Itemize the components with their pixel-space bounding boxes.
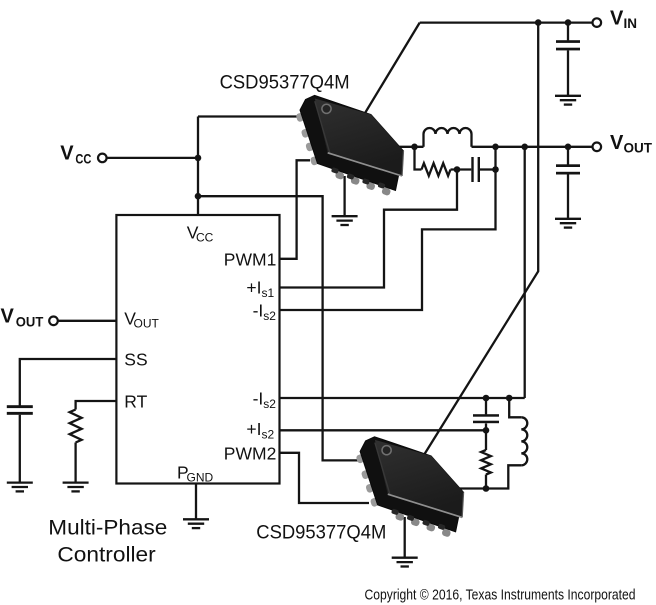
svg-text:PWM2: PWM2 [224,443,277,463]
svg-text:+I: +I [246,278,261,298]
svg-text:CSD95377Q4M: CSD95377Q4M [256,523,386,544]
svg-text:+I: +I [246,419,261,439]
svg-text:RT: RT [124,392,147,412]
svg-text:-I: -I [253,389,264,409]
svg-text:s1: s1 [262,286,275,300]
svg-text:V: V [610,8,624,30]
svg-text:s2: s2 [263,397,276,411]
svg-text:IN: IN [624,16,638,31]
svg-text:s2: s2 [263,309,276,323]
svg-text:CC: CC [75,151,91,166]
svg-text:V: V [1,306,15,328]
svg-text:-I: -I [253,301,264,321]
svg-text:V: V [610,132,624,154]
svg-text:PWM1: PWM1 [224,249,277,269]
svg-text:GND: GND [187,471,214,485]
svg-text:V: V [60,143,74,165]
svg-text:CSD95377Q4M: CSD95377Q4M [220,73,350,94]
svg-text:Copyright © 2016, Texas Instru: Copyright © 2016, Texas Instruments Inco… [365,588,636,604]
svg-text:SS: SS [124,350,147,370]
svg-text:OUT: OUT [16,314,44,329]
svg-text:OUT: OUT [134,316,160,330]
svg-text:Multi-Phase: Multi-Phase [48,516,167,539]
svg-text:CC: CC [196,231,214,245]
svg-text:s2: s2 [262,427,275,441]
svg-text:Controller: Controller [57,544,155,567]
svg-text:OUT: OUT [624,140,653,155]
